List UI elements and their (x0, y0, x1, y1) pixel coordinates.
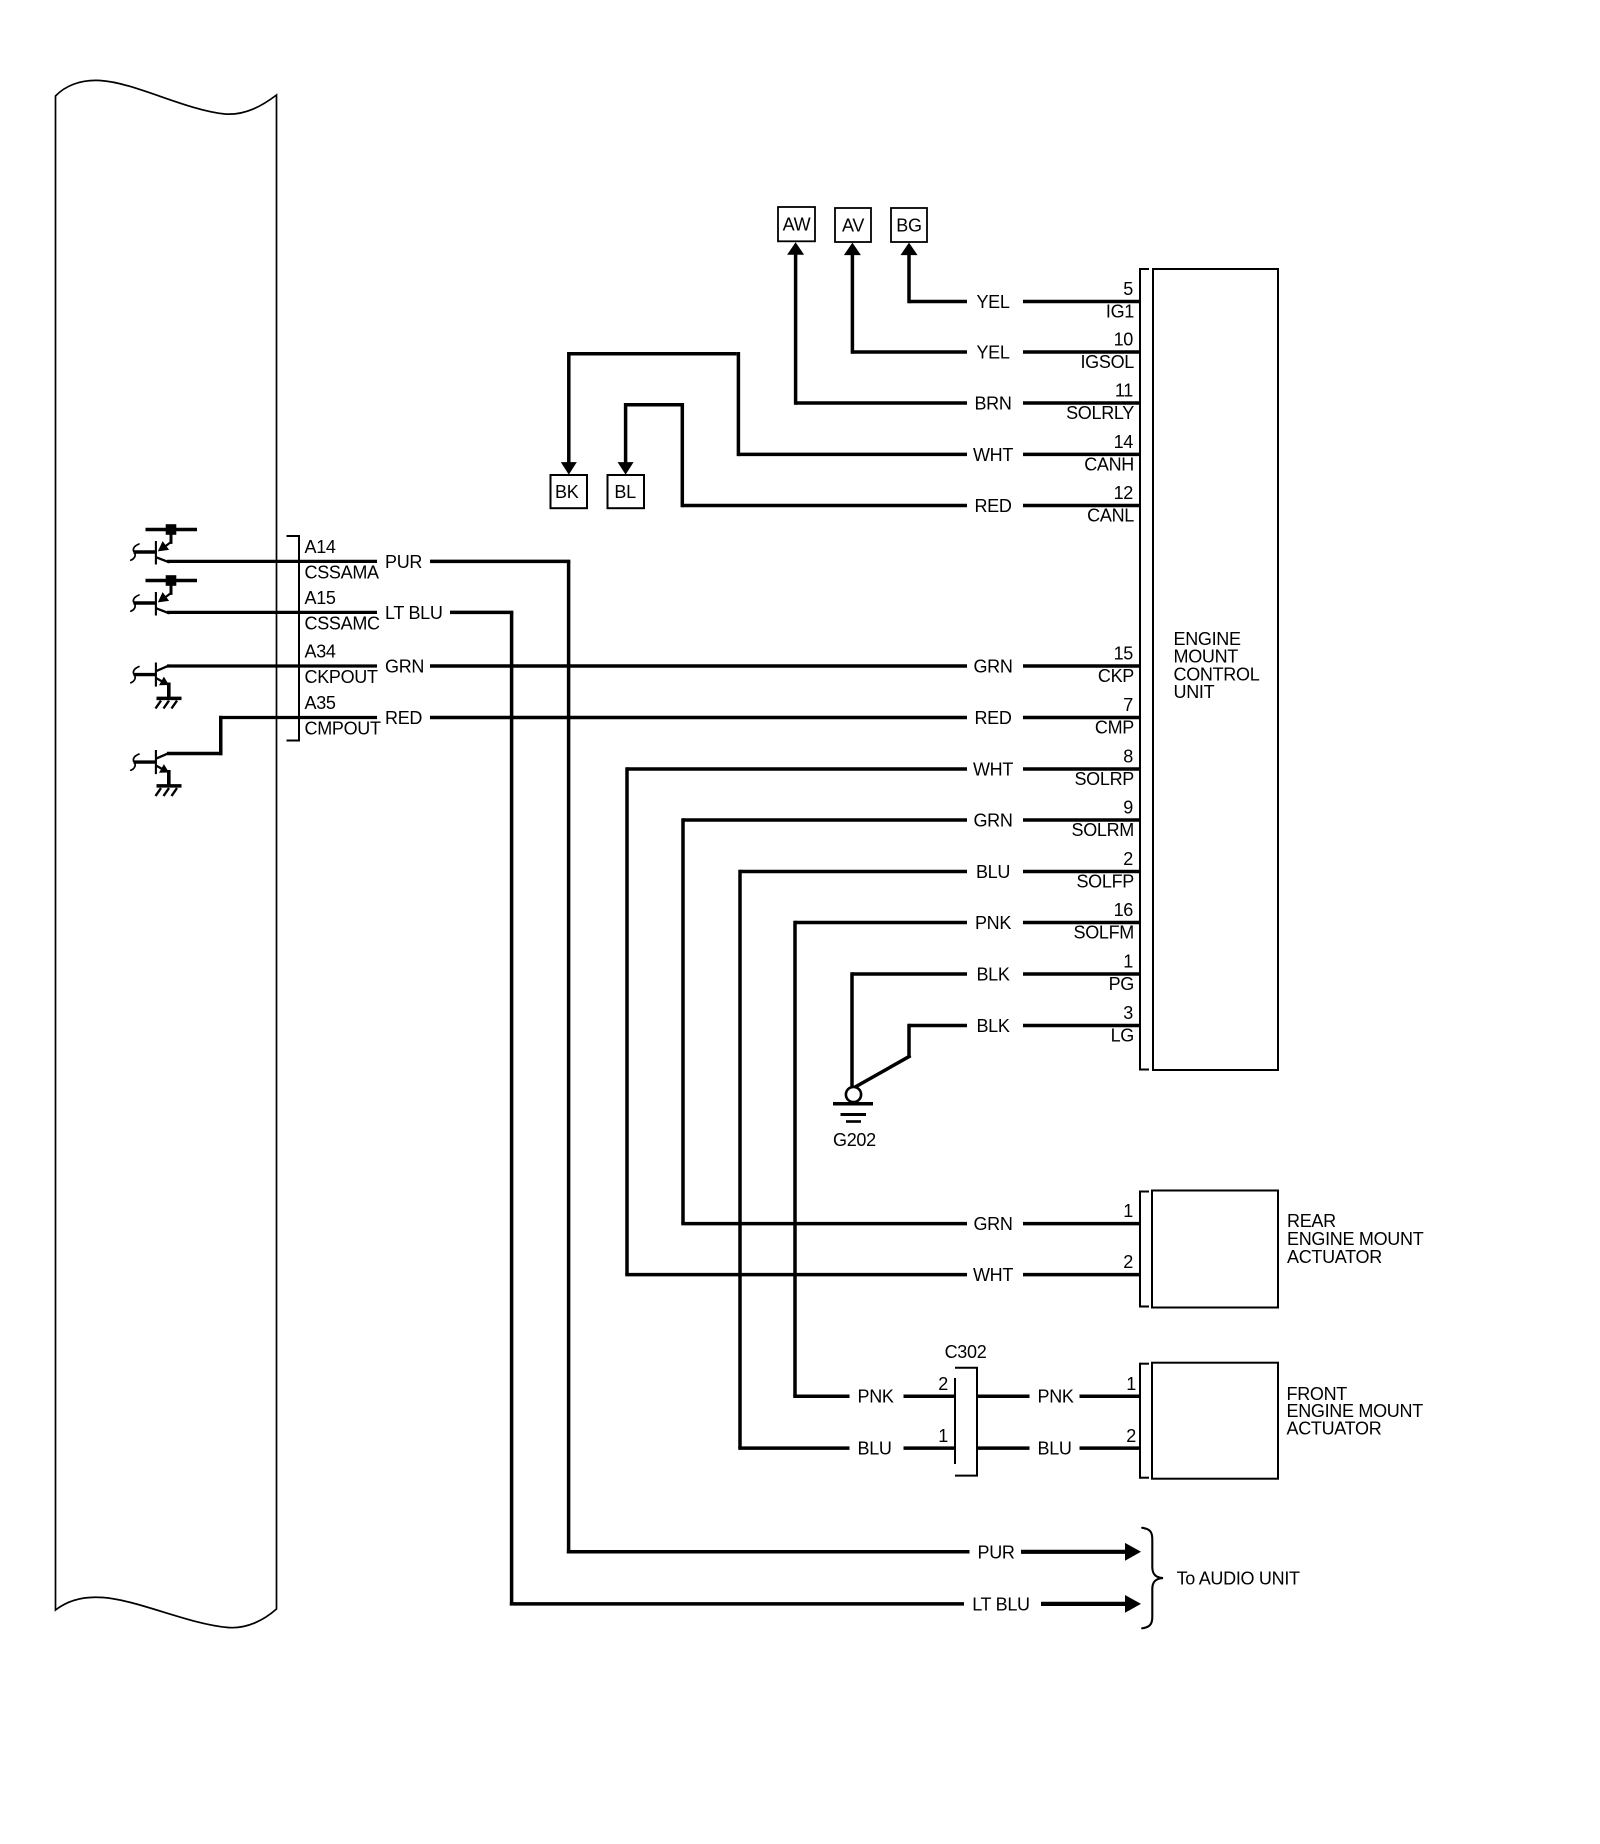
svg-text:12: 12 (1114, 483, 1134, 503)
svg-text:YEL: YEL (976, 343, 1009, 363)
svg-text:To AUDIO UNIT: To AUDIO UNIT (1177, 1568, 1300, 1588)
transistor Q2 (CSSAMC driver) collector stem (170, 583, 173, 595)
svg-text:15: 15 (1114, 644, 1134, 664)
wire A14 CSSAMA PUR horizontal (167, 560, 377, 563)
svg-text:BLK: BLK (976, 1016, 1009, 1036)
svg-text:UNIT: UNIT (1174, 682, 1215, 702)
svg-text:16: 16 (1114, 900, 1134, 920)
transistor Q1 (CSSAMA driver) collector stem (170, 532, 173, 544)
wire colour label LT BLU (left) (377, 605, 450, 619)
svg-text:BG: BG (896, 215, 921, 235)
svg-text:CKPOUT: CKPOUT (305, 667, 379, 687)
wire BLU ECU pin 2 SOLFP to C302 pin 1 (740, 870, 1140, 874)
transistor Q4 (CMPOUT driver) base bar (155, 750, 157, 774)
label text layer (305, 215, 1424, 1615)
wire colour label BRN at pin 11 (967, 396, 1023, 410)
wire PNK ECU pin 16 SOLFM to C302 pin 2 (795, 921, 1140, 925)
svg-text:GRN: GRN (973, 657, 1012, 677)
transistor Q3 (CKPOUT driver) base squiggle (continuation mark) (131, 667, 139, 683)
svg-text:RED: RED (974, 496, 1011, 516)
svg-text:3: 3 (1123, 1003, 1133, 1023)
svg-text:BLU: BLU (1038, 1439, 1072, 1459)
wire colour label BLU at pin 2 (967, 865, 1023, 879)
arrow down into BK (561, 462, 577, 475)
wire colour label PUR (to audio) (970, 1545, 1022, 1559)
wire BLK ECU pin 3 LG to ground G202 (909, 1024, 1140, 1028)
transistor Q3 (CKPOUT driver) base bar (155, 663, 157, 687)
svg-text:CMPOUT: CMPOUT (305, 719, 381, 739)
wire PUR to audio unit with arrow (567, 1550, 970, 1554)
svg-text:ACTUATOR: ACTUATOR (1287, 1418, 1382, 1438)
svg-text:G202: G202 (833, 1130, 876, 1150)
svg-text:GRN: GRN (385, 657, 424, 677)
destination box BL (608, 475, 645, 508)
svg-text:LT BLU: LT BLU (385, 603, 443, 623)
svg-text:14: 14 (1114, 432, 1134, 452)
ground G202 terminal circle (846, 1087, 861, 1102)
wire colour label WHT at rear actuator pin 2 (967, 1268, 1023, 1282)
wire colour label GRN (left) (377, 659, 430, 673)
arrow up into AW (787, 242, 804, 255)
wire colour label PUR (left) (377, 554, 430, 568)
svg-text:BL: BL (614, 482, 636, 502)
svg-text:CSSAMC: CSSAMC (305, 614, 381, 634)
connector bracket of engine mount control unit (1139, 268, 1141, 1071)
svg-text:PUR: PUR (978, 1542, 1015, 1562)
svg-text:1: 1 (1123, 1201, 1133, 1221)
svg-text:WHT: WHT (973, 445, 1013, 465)
svg-text:A35: A35 (305, 693, 336, 713)
transistor Q4 (CMPOUT driver) emitter lead with arrow (156, 766, 163, 770)
wire colour label GRN at rear actuator pin 1 (967, 1217, 1023, 1231)
wire colour label PNK at pin 16 (967, 916, 1023, 930)
svg-text:ENGINE MOUNT: ENGINE MOUNT (1287, 1229, 1424, 1249)
wire colour label RED at pin 12 (967, 499, 1023, 513)
svg-text:AV: AV (842, 215, 864, 235)
wire GRN ECU pin 9 SOLRM to rear actuator pin 1 (683, 818, 1140, 822)
svg-text:LT BLU: LT BLU (972, 1594, 1030, 1614)
svg-text:BK: BK (555, 482, 579, 502)
wire WHT CAN-H routing to BK (738, 453, 1140, 457)
svg-text:CSSAMA: CSSAMA (305, 563, 380, 583)
wire colour label WHT at pin 14 (967, 447, 1023, 461)
svg-text:PUR: PUR (385, 552, 422, 572)
transistor Q1 (CSSAMA driver) base squiggle (continuation mark) (131, 544, 139, 560)
svg-text:A34: A34 (305, 642, 336, 662)
wire colour label LT BLU (to audio) (964, 1597, 1041, 1611)
svg-text:2: 2 (1123, 849, 1133, 869)
svg-text:ACTUATOR: ACTUATOR (1287, 1247, 1382, 1267)
svg-text:GRN: GRN (973, 811, 1012, 831)
transistor Q1 (CSSAMA driver) collector arrow into base (164, 542, 171, 547)
svg-text:RED: RED (974, 708, 1011, 728)
svg-text:8: 8 (1123, 747, 1133, 767)
destination box AW (778, 207, 815, 241)
transistor Q4 (CMPOUT driver) collector lead (156, 753, 170, 759)
wire A34 CKPOUT GRN horizontal to ECU pin 15 (167, 664, 377, 667)
wire LT BLU to audio unit with arrow (510, 1602, 964, 1606)
wire A35 CMPOUT RED horizontal to ECU pin 7 (219, 716, 377, 719)
transistor Q2 (CSSAMC driver) collector arrow into base (164, 593, 171, 598)
wire colour label YEL at pin 5 (967, 295, 1023, 309)
svg-text:BLU: BLU (976, 862, 1010, 882)
destination box BK (551, 475, 588, 508)
transistor Q1 (CSSAMA driver) base bar (155, 541, 157, 565)
unit box ENGINE MOUNT CONTROL UNIT (1153, 269, 1278, 1070)
svg-text:PG: PG (1109, 974, 1134, 994)
svg-text:SOLFM: SOLFM (1073, 923, 1134, 943)
arrow up into BG (901, 243, 918, 256)
transistor Q3 (CKPOUT driver) emitter drop wire (167, 683, 171, 699)
svg-text:WHT: WHT (973, 760, 1013, 780)
transistor Q4 (CMPOUT driver) emitter drop wire (167, 770, 171, 786)
arrow down into BL (618, 462, 634, 475)
wire PUR vertical down to audio row (567, 561, 571, 1553)
svg-text:C302: C302 (945, 1342, 987, 1362)
svg-text:SOLRP: SOLRP (1074, 769, 1134, 789)
svg-text:CMP: CMP (1095, 718, 1134, 738)
junction square on Q1 (CSSAMA driver) supply bar (166, 524, 177, 535)
wire Q4 collector jog to CMPOUT (167, 752, 223, 756)
wire BRN to ECU pin 11 SOLRLY (796, 401, 1140, 405)
ground G202 symbol bars (833, 1102, 873, 1106)
arrow up into AV (844, 243, 861, 256)
connector bracket of PCM (left unit) (298, 535, 300, 742)
ground symbol at Q4 (CMPOUT driver) emitter (157, 784, 182, 788)
svg-text:1: 1 (1123, 952, 1133, 972)
svg-text:PNK: PNK (858, 1387, 894, 1407)
svg-text:SOLFP: SOLFP (1076, 872, 1134, 892)
svg-text:5: 5 (1123, 279, 1133, 299)
svg-text:1: 1 (938, 1426, 948, 1446)
wire BLK ECU pin 1 PG to ground G202 (852, 972, 1140, 976)
svg-text:2: 2 (1123, 1252, 1133, 1272)
wire WHT ECU pin 8 SOLRP to rear actuator pin 2 (627, 767, 1140, 771)
transistor Q4 (CMPOUT driver) base squiggle (continuation mark) (131, 754, 139, 770)
unit box REAR ENGINE MOUNT ACTUATOR (1152, 1191, 1278, 1308)
destination box AV (835, 208, 871, 242)
wire colour label PNK (C302 left) (850, 1389, 904, 1403)
transistor Q1 (CSSAMA driver) base lead (134, 550, 156, 553)
svg-text:BRN: BRN (974, 394, 1011, 414)
svg-text:9: 9 (1123, 798, 1133, 818)
wire colour label BLK at pin 3 (967, 1019, 1023, 1033)
svg-text:GRN: GRN (973, 1214, 1012, 1234)
wire colour label GRN at pin 15 (967, 659, 1023, 673)
svg-text:7: 7 (1123, 695, 1133, 715)
connector C302 mating face line (954, 1378, 956, 1464)
wire colour label WHT at pin 8 (967, 762, 1023, 776)
svg-text:RED: RED (385, 708, 422, 728)
svg-text:CANH: CANH (1084, 454, 1134, 474)
svg-text:SOLRLY: SOLRLY (1066, 403, 1134, 423)
transistor Q3 (CKPOUT driver) emitter lead with arrow (156, 678, 163, 682)
svg-text:YEL: YEL (976, 292, 1009, 312)
harness band (cable bundle, torn edges) (56, 80, 277, 1627)
transistor Q2 (CSSAMC driver) base bar (155, 592, 157, 616)
brace grouping wires to audio unit (1142, 1528, 1163, 1629)
transistor Q1 (CSSAMA driver) emitter lead (156, 557, 170, 562)
svg-text:BLK: BLK (976, 965, 1009, 985)
wire A15 CSSAMC LT BLU horizontal (167, 611, 377, 614)
transistor Q2 (CSSAMC driver) base lead (134, 601, 156, 604)
svg-text:A15: A15 (305, 588, 336, 608)
svg-text:11: 11 (1115, 381, 1133, 401)
wire colour label RED at pin 7 (967, 711, 1023, 725)
unit box FRONT ENGINE MOUNT ACTUATOR (1152, 1363, 1278, 1479)
destination box BG (891, 208, 927, 242)
connector bracket of front engine mount actuator (1139, 1363, 1141, 1479)
connector C302 half-shell bracket (955, 1368, 977, 1476)
svg-text:CANL: CANL (1087, 506, 1134, 526)
transistor Q3 (CKPOUT driver) collector lead (156, 665, 170, 671)
wire colour label BLK at pin 1 (967, 967, 1023, 981)
wire BLU C302 to front actuator pin 2 (978, 1446, 1140, 1450)
svg-text:PNK: PNK (1038, 1387, 1074, 1407)
svg-text:SOLRM: SOLRM (1071, 820, 1134, 840)
svg-text:PNK: PNK (975, 913, 1011, 933)
svg-text:1: 1 (1126, 1374, 1136, 1394)
wire PNK C302 to front actuator pin 1 (978, 1394, 1140, 1398)
svg-text:BLU: BLU (858, 1439, 892, 1459)
wire colour label RED (left) (377, 711, 430, 725)
svg-text:A14: A14 (305, 537, 336, 557)
transistor Q3 (CKPOUT driver) base lead (134, 673, 156, 676)
svg-text:WHT: WHT (973, 1265, 1013, 1285)
svg-text:LG: LG (1111, 1026, 1134, 1046)
svg-text:CKP: CKP (1098, 666, 1134, 686)
wire LT BLU vertical down to audio row (510, 612, 514, 1605)
transistor Q2 (CSSAMC driver) emitter lead (156, 608, 170, 613)
wire colour label GRN at pin 9 (967, 813, 1023, 827)
wire YEL to ECU pin 5 IG1 (909, 300, 1140, 304)
svg-text:IG1: IG1 (1106, 302, 1134, 322)
wire colour label BLU (C302 right) (1030, 1441, 1080, 1455)
transistor Q4 (CMPOUT driver) base lead (134, 760, 156, 763)
transistor Q2 (CSSAMC driver) top supply bar (146, 579, 198, 583)
svg-text:AW: AW (783, 215, 811, 235)
wire colour label PNK (C302 right) (1030, 1389, 1080, 1403)
wire colour label BLU (C302 left) (850, 1441, 904, 1455)
wire YEL to ECU pin 10 IGSOL (852, 350, 1140, 354)
junction square on Q2 (CSSAMC driver) supply bar (166, 575, 177, 586)
transistor Q1 (CSSAMA driver) top supply bar (146, 528, 198, 532)
svg-text:2: 2 (1126, 1426, 1136, 1446)
svg-text:10: 10 (1114, 330, 1134, 350)
transistor Q2 (CSSAMC driver) base squiggle (continuation mark) (131, 595, 139, 611)
svg-text:IGSOL: IGSOL (1080, 352, 1134, 372)
wire colour label YEL at pin 10 (967, 345, 1023, 359)
ground symbol at Q3 (CKPOUT driver) emitter (157, 697, 182, 701)
svg-text:REAR: REAR (1287, 1211, 1336, 1231)
connector bracket of rear engine mount actuator (1139, 1191, 1141, 1308)
svg-text:2: 2 (938, 1374, 948, 1394)
wire RED CAN-L routing to BL (682, 504, 1140, 508)
